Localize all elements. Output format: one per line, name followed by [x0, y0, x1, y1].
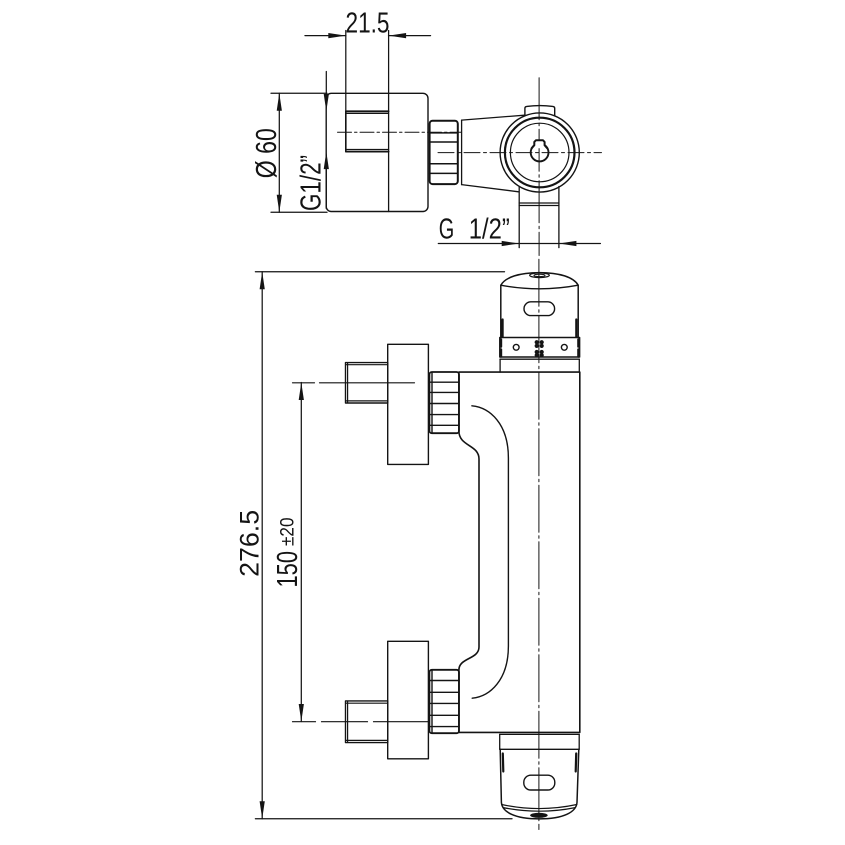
outlet pipe (top view)	[518, 187, 520, 248]
dimension 21.5 line + arrows	[305, 35, 346, 37]
lower union centerline	[293, 721, 430, 723]
spindle keyway	[532, 140, 548, 148]
C-tube inner silhouette	[472, 406, 509, 698]
cap inner side marks	[502, 320, 504, 338]
bottom cap screw hole	[530, 813, 548, 818]
valve cone bottom line	[462, 185, 519, 192]
top cap (temperature handle)	[501, 273, 578, 338]
cap oval grip slot	[524, 302, 555, 316]
tab on valve top	[525, 106, 555, 116]
body block and C-tube outline	[459, 372, 580, 732]
valve cone top line	[462, 115, 525, 120]
dimension G1/2 (port) line + arrows	[325, 72, 327, 98]
bottom cap side marks	[502, 754, 505, 772]
upper union centerline	[293, 382, 415, 384]
upper rosette	[388, 344, 429, 464]
front vertical centerline	[538, 259, 540, 829]
valve head inner circle	[510, 123, 569, 182]
dimension D60 line + arrows	[278, 93, 280, 212]
lower rosette	[388, 641, 429, 759]
svg-text:276.5: 276.5	[235, 510, 265, 577]
dimension 150 line + arrows	[300, 383, 302, 722]
valve head chamfer circle (thick)	[505, 118, 575, 188]
cap brim sag line	[501, 285, 578, 289]
top collar	[499, 359, 501, 372]
dimension D60 extension lines	[271, 92, 327, 94]
inlet port G1/2 (top view, threaded bore)	[346, 111, 389, 151]
lower knurled nut	[429, 670, 459, 733]
dimension 276.5 extension lines	[255, 271, 504, 273]
bottom cap oval slot	[524, 775, 555, 790]
hex nut (top view)	[430, 121, 458, 184]
knurled adjuster ring	[500, 338, 580, 358]
dimension G 1/2 (outlet) line + arrows	[438, 243, 600, 245]
top view vertical centerline	[538, 78, 540, 256]
upper wall union pipe	[346, 363, 388, 403]
bottom cap (flow handle)	[500, 749, 579, 819]
bottom collar	[500, 733, 580, 735]
svg-text:1/2”: 1/2”	[469, 214, 510, 246]
lower wall union pipe	[346, 701, 388, 743]
svg-text:G1/2”: G1/2”	[296, 155, 328, 211]
valve head outer circle	[500, 113, 579, 192]
svg-text:150: 150	[272, 551, 304, 588]
spindle circle	[531, 144, 549, 162]
svg-text:±20: ±20	[278, 518, 299, 547]
port centerline	[338, 131, 462, 133]
ring lower edge	[500, 358, 579, 360]
top view body inner edge	[388, 93, 390, 211]
dimension 21.5 extension lines	[345, 31, 347, 112]
svg-text:Ø 60: Ø 60	[251, 128, 283, 178]
dimension 276.5 line + arrows	[261, 272, 263, 819]
cap top ellipse	[530, 273, 550, 278]
cone base edge	[461, 120, 463, 185]
bottom cap rim arcs	[502, 805, 577, 809]
valve axis centerline	[438, 152, 602, 154]
svg-text:G: G	[439, 214, 455, 246]
upper knurled nut	[429, 372, 459, 433]
svg-text:21.5: 21.5	[346, 7, 390, 39]
top view body (mixer block, plan view)	[326, 93, 428, 211]
